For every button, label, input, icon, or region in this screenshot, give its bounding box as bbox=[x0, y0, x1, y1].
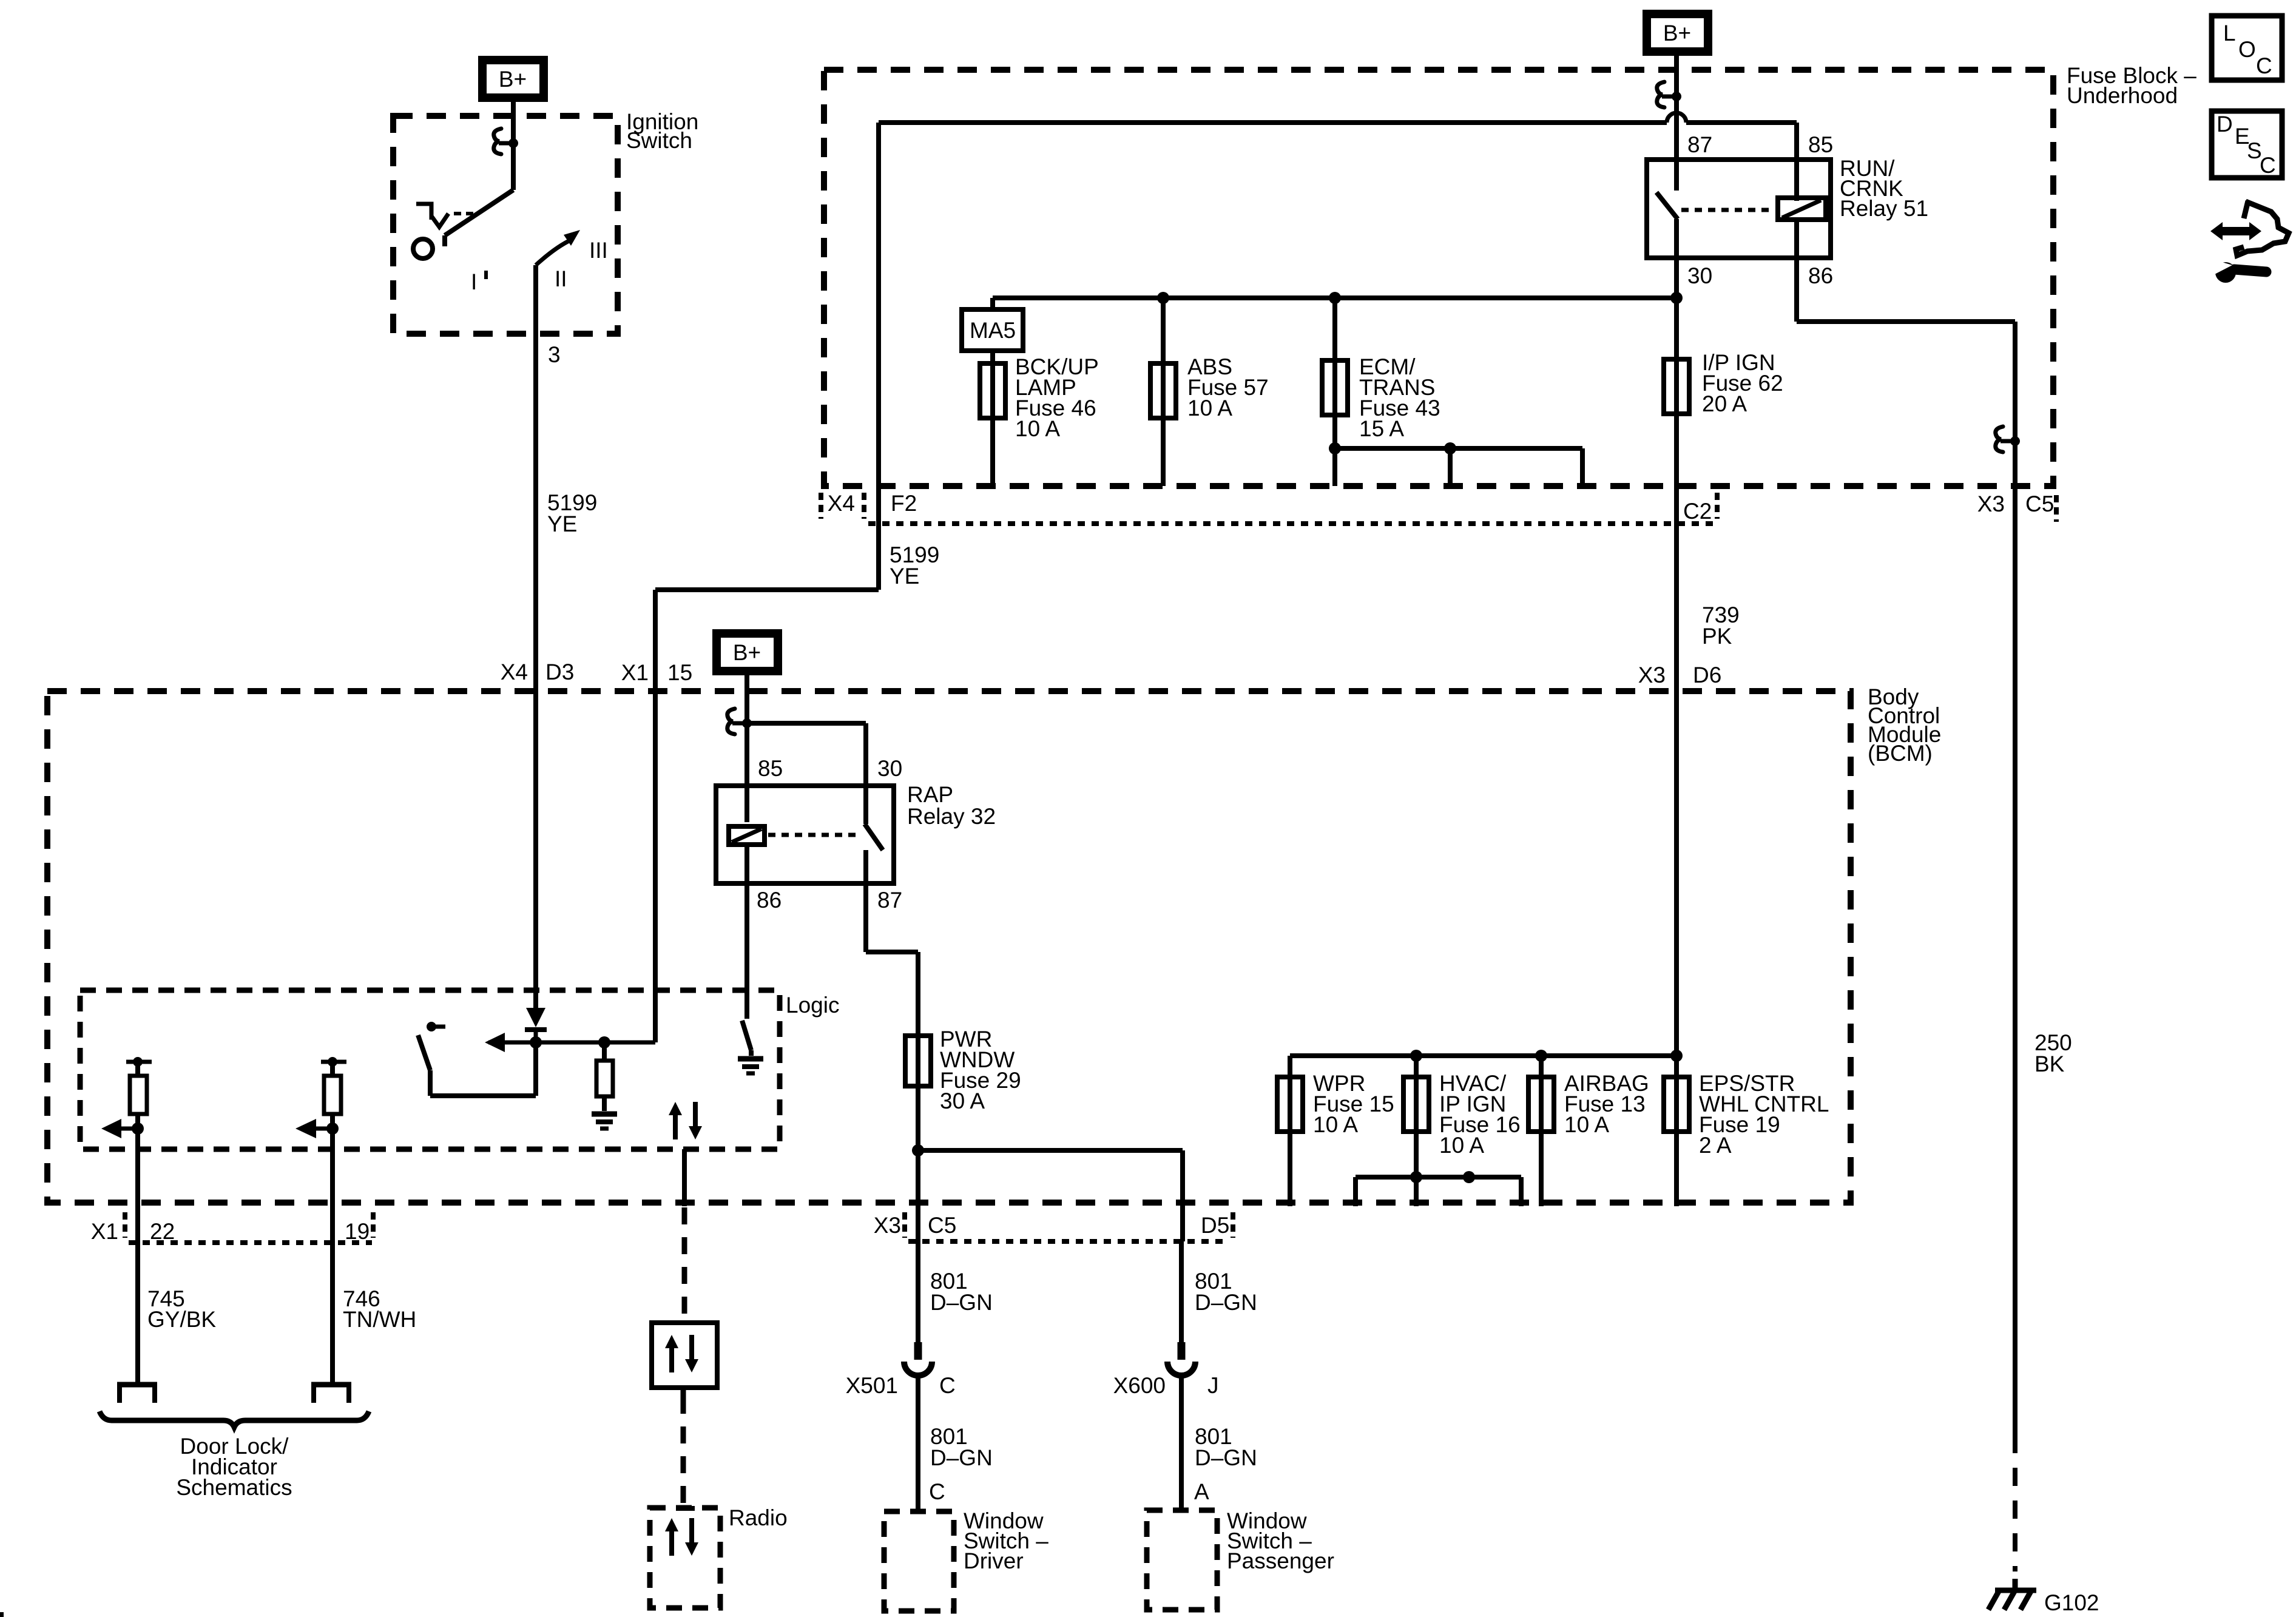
svg-text:X600: X600 bbox=[1113, 1373, 1166, 1398]
wire B+ to RAP coil 85 bbox=[745, 675, 749, 822]
svg-text:I: I bbox=[471, 269, 477, 294]
svg-text:A: A bbox=[1194, 1479, 1209, 1504]
fuse 46 BCK/UP LAMP bbox=[980, 363, 1005, 418]
power feed B+ (ignition switch) bbox=[482, 60, 544, 98]
navigation icon wrench bbox=[2215, 262, 2236, 283]
terminal clip at B+ stud bbox=[1657, 82, 1664, 107]
svg-text:L: L bbox=[2223, 21, 2236, 46]
svg-text:TN/WH: TN/WH bbox=[343, 1307, 416, 1332]
relay 51 contact blade bbox=[1656, 192, 1678, 258]
logic ground switch blade bbox=[742, 1021, 751, 1056]
fuse block underhood box bbox=[824, 70, 2053, 486]
window switch driver box bbox=[884, 1511, 954, 1611]
svg-text:Switch: Switch bbox=[626, 128, 692, 153]
svg-text:B+: B+ bbox=[499, 67, 527, 92]
svg-text:YE: YE bbox=[547, 511, 577, 536]
svg-text:30 A: 30 A bbox=[940, 1089, 985, 1113]
branch wire to passenger switch bbox=[918, 1150, 1183, 1241]
svg-text:D5: D5 bbox=[1201, 1213, 1229, 1238]
svg-text:X3: X3 bbox=[1638, 663, 1666, 687]
svg-text:F2: F2 bbox=[891, 491, 917, 516]
radio interface box bbox=[652, 1323, 717, 1388]
svg-text:10 A: 10 A bbox=[1313, 1112, 1358, 1137]
navigation icon hood outline bbox=[2236, 201, 2289, 255]
svg-text:86: 86 bbox=[757, 888, 782, 913]
wire D5 to X600 bbox=[1179, 1241, 1184, 1342]
fuse 57 ABS bbox=[1150, 363, 1176, 418]
wire to accessory switch bbox=[430, 1042, 536, 1096]
junction EPS fuse bbox=[1670, 1050, 1683, 1062]
svg-text:15: 15 bbox=[667, 660, 692, 685]
svg-text:Relay 51: Relay 51 bbox=[1840, 196, 1928, 221]
svg-text:O: O bbox=[2238, 37, 2256, 62]
body control module box bbox=[47, 691, 1851, 1203]
svg-text:20 A: 20 A bbox=[1702, 391, 1747, 416]
svg-text:10 A: 10 A bbox=[1015, 416, 1060, 441]
power feed B+ (RAP relay) bbox=[717, 633, 778, 671]
svg-text:GY/BK: GY/BK bbox=[147, 1307, 216, 1332]
svg-text:D–GN: D–GN bbox=[1195, 1445, 1257, 1470]
junction door lock 1 bbox=[132, 1122, 144, 1135]
svg-text:PK: PK bbox=[1702, 624, 1732, 649]
svg-text:X3: X3 bbox=[1977, 491, 2005, 516]
wire B+ to ignition switch bbox=[511, 102, 516, 146]
svg-text:C5: C5 bbox=[928, 1213, 956, 1238]
wire ignition feed to contact bbox=[511, 143, 516, 190]
accessory switch blade bbox=[418, 1035, 430, 1070]
junction resistor node bbox=[598, 1036, 610, 1048]
junction fuse 43 branch bbox=[1329, 442, 1341, 454]
RAP actuator dashed link bbox=[768, 833, 862, 837]
svg-text:C: C bbox=[929, 1479, 945, 1504]
wire 5199 F2 to BCM X1-15 bbox=[655, 486, 879, 1042]
relay 51 coil bbox=[1778, 198, 1826, 220]
bus wire 5199 to relay coil 85 bbox=[879, 120, 1667, 125]
connector strip X3 bbox=[908, 1239, 1227, 1244]
fuse 16 HVAC/IP IGN bbox=[1414, 1056, 1419, 1077]
door lock output driver 2 bbox=[321, 1060, 346, 1064]
svg-text:C2: C2 bbox=[1683, 499, 1712, 524]
svg-text:87: 87 bbox=[1687, 132, 1712, 157]
terminal clip at RAP feed bbox=[728, 709, 735, 734]
door lock output driver 1 bbox=[126, 1060, 152, 1064]
svg-text:D–GN: D–GN bbox=[930, 1445, 993, 1470]
svg-text:III: III bbox=[589, 238, 608, 263]
svg-text:Passenger: Passenger bbox=[1227, 1548, 1334, 1573]
diode on ignition input bbox=[526, 1008, 545, 1027]
inline connector X501 bbox=[914, 1342, 922, 1360]
DESC box bbox=[2212, 111, 2282, 178]
svg-text:J: J bbox=[1207, 1373, 1219, 1398]
junction HVAC fuse bbox=[1410, 1050, 1422, 1062]
svg-text:D3: D3 bbox=[545, 660, 574, 684]
dashed wire to G102 bbox=[2013, 1435, 2017, 1571]
fuse 13 AIRBAG bbox=[1539, 1056, 1544, 1077]
wire fuse 46 to F2 edge bbox=[990, 418, 995, 486]
svg-text:X1: X1 bbox=[91, 1219, 118, 1244]
pull-down resistor bbox=[602, 1042, 607, 1061]
wire relay 30 through fuse 62 bbox=[1674, 258, 1679, 359]
wire 250 BK bbox=[2013, 495, 2017, 1435]
svg-text:C: C bbox=[2260, 153, 2276, 178]
wire B+ to relay 87 bbox=[1674, 56, 1679, 191]
junction bus fuse 57 bbox=[1157, 292, 1169, 304]
svg-text:22: 22 bbox=[150, 1219, 175, 1244]
svg-text:D–GN: D–GN bbox=[1195, 1290, 1257, 1315]
radio box bbox=[650, 1508, 720, 1608]
wire RAP 87 to fuse 29 bbox=[866, 883, 918, 1036]
svg-text:3: 3 bbox=[548, 342, 561, 367]
wire bus to fuse 57 bbox=[1161, 298, 1166, 363]
wire logic to radio feed bbox=[682, 1149, 687, 1206]
svg-text:BK: BK bbox=[2034, 1052, 2065, 1076]
fuse 29 PWR WNDW bbox=[905, 1036, 931, 1086]
wire RAP 86 to logic ground switch bbox=[745, 845, 749, 1019]
svg-text:X4: X4 bbox=[828, 491, 855, 516]
wire relay 86 to C5 bbox=[1797, 220, 2015, 495]
junction diode node bbox=[530, 1036, 542, 1048]
junction door lock 2 bbox=[326, 1122, 339, 1135]
accessory switch contact bbox=[427, 1022, 436, 1031]
svg-text:X501: X501 bbox=[846, 1373, 898, 1398]
wire bus to fuse 43 bbox=[1332, 298, 1337, 360]
junction bus fuse 43 bbox=[1329, 292, 1341, 304]
svg-text:C: C bbox=[2256, 53, 2272, 78]
RAP contact blade bbox=[865, 824, 883, 883]
svg-text:85: 85 bbox=[1808, 132, 1833, 157]
svg-text:MA5: MA5 bbox=[970, 318, 1016, 343]
terminal clip on 250 BK bbox=[1996, 427, 2003, 452]
dashed wire to radio interface bbox=[682, 1207, 687, 1323]
ignition key symbol bbox=[413, 239, 433, 258]
svg-text:C5: C5 bbox=[2025, 491, 2054, 516]
wire fuse 57 to edge bbox=[1161, 418, 1166, 486]
svg-text:G102: G102 bbox=[2044, 1590, 2099, 1615]
svg-text:YE: YE bbox=[890, 564, 919, 589]
svg-text:II: II bbox=[555, 266, 567, 291]
junction relay 30 / fuse bus bbox=[1670, 292, 1683, 304]
terminal door lock 1 bbox=[117, 1382, 157, 1388]
wire MA5 to fuse 46 bbox=[990, 351, 995, 363]
svg-text:(BCM): (BCM) bbox=[1868, 741, 1933, 766]
retained accessory power arrows bbox=[673, 1114, 678, 1139]
resistor ground symbol bbox=[592, 1112, 617, 1117]
ignition position arc II-III bbox=[536, 239, 573, 265]
terminal clip at ignition feed bbox=[494, 129, 501, 154]
svg-text:X4: X4 bbox=[501, 660, 528, 684]
junction window switch feed bbox=[912, 1144, 924, 1156]
logic node bus bbox=[488, 1041, 655, 1045]
svg-text:Relay 32: Relay 32 bbox=[907, 804, 996, 829]
connector MA5 box bbox=[962, 309, 1023, 351]
wire fuse 29 to window switches bbox=[916, 1086, 920, 1241]
svg-text:Logic: Logic bbox=[786, 993, 839, 1018]
svg-text:RAP: RAP bbox=[907, 782, 953, 807]
fuse 15 WPR bbox=[1277, 1077, 1303, 1132]
HVAC output sub-bus bbox=[1356, 1177, 1521, 1206]
RAP relay coil bbox=[729, 826, 765, 845]
svg-text:2 A: 2 A bbox=[1699, 1133, 1732, 1158]
navigation icon double arrow bbox=[2210, 222, 2261, 240]
svg-text:D6: D6 bbox=[1693, 663, 1721, 687]
logic ground symbol bbox=[738, 1056, 763, 1062]
svg-text:Driver: Driver bbox=[964, 1548, 1024, 1573]
LOC box bbox=[2212, 16, 2282, 80]
svg-text:87: 87 bbox=[877, 888, 902, 913]
connector strip below fuse block bbox=[868, 521, 1717, 526]
svg-text:Schematics: Schematics bbox=[176, 1475, 292, 1500]
fuse feed bus bbox=[993, 298, 1676, 309]
wire F2 output down bbox=[876, 123, 881, 486]
RAP relay 32 box bbox=[716, 786, 894, 883]
svg-text:86: 86 bbox=[1808, 263, 1833, 288]
power feed B+ (run/crnk relay) bbox=[1647, 14, 1708, 52]
corner mark bbox=[0, 1612, 4, 1617]
ignition switch contact arm bbox=[445, 190, 513, 246]
branch wire to spare outputs bbox=[1335, 448, 1582, 486]
wire ignition pin 3 (5199 YE) bbox=[533, 265, 538, 1008]
svg-text:Underhood: Underhood bbox=[2067, 83, 2178, 108]
svg-text:Radio: Radio bbox=[729, 1505, 788, 1530]
svg-text:15 A: 15 A bbox=[1359, 416, 1404, 441]
svg-text:10 A: 10 A bbox=[1564, 1112, 1609, 1137]
BCM fuse bus bbox=[1290, 1056, 1676, 1077]
window switch passenger box bbox=[1147, 1510, 1217, 1610]
fuse 19 EPS/STR WHL CNTRL bbox=[1674, 1056, 1679, 1077]
relay 51 actuator dashed link bbox=[1681, 208, 1773, 212]
connector strip X1 bbox=[129, 1240, 372, 1245]
svg-text:X3: X3 bbox=[874, 1213, 901, 1238]
wire RAP feed to contact 30 bbox=[747, 723, 866, 824]
fuse 62 I/P IGN bbox=[1664, 359, 1689, 414]
inline connector X600 bbox=[1178, 1342, 1186, 1360]
svg-text:10 A: 10 A bbox=[1439, 1133, 1484, 1158]
junction AIRBAG fuse bbox=[1535, 1050, 1547, 1062]
svg-text:B+: B+ bbox=[733, 640, 761, 665]
terminal door lock 2 bbox=[311, 1382, 351, 1388]
svg-text:30: 30 bbox=[1687, 263, 1712, 288]
svg-text:C: C bbox=[939, 1373, 956, 1398]
ground G102 bbox=[2013, 1579, 2018, 1590]
wire C5 to X501 bbox=[916, 1241, 920, 1342]
svg-text:30: 30 bbox=[877, 756, 902, 781]
svg-text:10 A: 10 A bbox=[1187, 396, 1232, 420]
wire fuse 43 to edge bbox=[1332, 415, 1337, 486]
ignition switch box bbox=[393, 116, 618, 334]
svg-text:X1: X1 bbox=[621, 660, 649, 685]
wire 739 PK down to BCM bbox=[1674, 414, 1679, 1056]
svg-text:D–GN: D–GN bbox=[930, 1290, 993, 1315]
arrow to door lock logic bbox=[485, 1033, 505, 1052]
svg-text:D: D bbox=[2217, 112, 2233, 137]
logic box bbox=[80, 990, 780, 1149]
svg-text:19: 19 bbox=[345, 1219, 370, 1244]
dashed wire to radio bbox=[681, 1388, 686, 1397]
RUN/CRNK relay 51 box bbox=[1647, 160, 1831, 258]
fuse 43 ECM/TRANS bbox=[1322, 360, 1348, 415]
svg-text:B+: B+ bbox=[1663, 21, 1691, 46]
brace door lock schematics bbox=[100, 1411, 369, 1427]
svg-text:85: 85 bbox=[758, 756, 783, 781]
